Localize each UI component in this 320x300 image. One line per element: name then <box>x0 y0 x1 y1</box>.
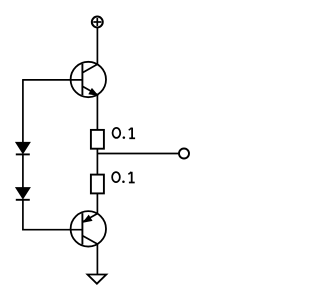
output terminal <box>179 149 189 159</box>
ground <box>88 275 107 284</box>
diode D1 <box>16 143 30 155</box>
wire Q2 collector to ground <box>96 244 98 274</box>
wire left rail bottom segment <box>22 200 24 231</box>
positive supply terminal <box>92 17 103 28</box>
label 0.1 for R2 <box>112 172 135 183</box>
wire supply to Q1 collector <box>96 27 98 64</box>
transistor Q1 (NPN, top) <box>71 62 106 97</box>
wire Q1 base to left rail <box>23 79 83 81</box>
wire left rail top segment <box>22 79 24 142</box>
wire R1 to R2 <box>96 149 98 175</box>
wire Q1 emitter to R1 <box>96 95 98 130</box>
transistor Q2 (PNP, bottom) <box>71 211 106 246</box>
wire Q2 base to left rail <box>23 229 83 231</box>
diode D2 <box>16 188 30 200</box>
wire D1 to D2 <box>22 154 24 187</box>
label 0.1 for R1 <box>113 128 136 139</box>
wire midpoint tap to output <box>97 153 179 155</box>
resistor R1 <box>91 130 104 149</box>
resistor R2 <box>91 175 104 194</box>
wire R2 to Q2 emitter <box>96 193 98 213</box>
